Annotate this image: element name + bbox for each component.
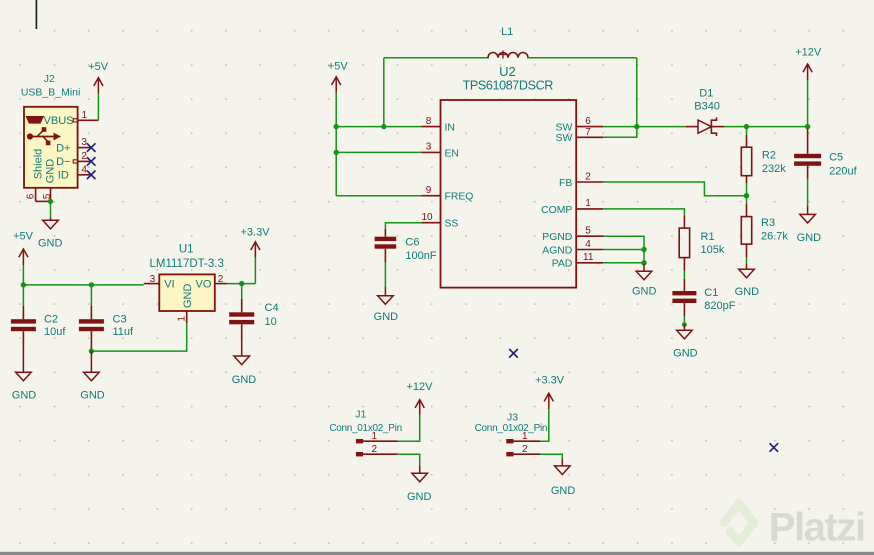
svg-text:8: 8 bbox=[426, 116, 432, 127]
svg-text:11uf: 11uf bbox=[113, 326, 135, 338]
svg-text:SW: SW bbox=[556, 133, 573, 144]
svg-text:6: 6 bbox=[26, 193, 37, 199]
svg-text:1: 1 bbox=[522, 431, 528, 442]
wire SS to C6 bbox=[385, 223, 421, 229]
svg-text:4: 4 bbox=[585, 239, 591, 250]
svg-text:B340: B340 bbox=[694, 101, 720, 113]
J2 pin 4 ID bbox=[58, 164, 91, 181]
J2 pin 5 GND bbox=[42, 188, 53, 202]
svg-text:AGND: AGND bbox=[542, 245, 572, 256]
svg-text:TPS61087DSCR: TPS61087DSCR bbox=[463, 79, 554, 93]
connector J1 Conn_01x02_Pin bbox=[329, 409, 402, 434]
svg-text:1: 1 bbox=[372, 431, 378, 442]
svg-text:GND: GND bbox=[551, 485, 576, 497]
capacitor C3 bbox=[79, 285, 134, 351]
resistor R3 26.7k bbox=[741, 204, 788, 257]
svg-text:2: 2 bbox=[81, 151, 87, 162]
svg-text:Conn_01x02_Pin: Conn_01x02_Pin bbox=[475, 423, 548, 434]
svg-text:11: 11 bbox=[583, 252, 594, 263]
svg-text:820pF: 820pF bbox=[704, 300, 735, 312]
svg-text:7: 7 bbox=[585, 127, 591, 138]
capacitor C2 bbox=[11, 285, 66, 346]
svg-text:C5: C5 bbox=[829, 151, 843, 163]
svg-text:PGND: PGND bbox=[542, 232, 572, 243]
wire C5 to gnd bbox=[807, 179, 809, 206]
svg-text:5: 5 bbox=[585, 226, 591, 237]
U2 pin 4 AGND bbox=[542, 239, 603, 257]
wire C1 to gnd bbox=[683, 316, 685, 325]
U2 pin 9 FREQ bbox=[422, 185, 474, 203]
svg-text:J1: J1 bbox=[355, 409, 366, 421]
wire EN bbox=[336, 151, 421, 153]
wire +3.3V down bbox=[254, 258, 256, 284]
svg-text:+5V: +5V bbox=[328, 61, 349, 73]
svg-text:232k: 232k bbox=[762, 163, 786, 175]
svg-text:GND: GND bbox=[735, 286, 760, 298]
IC U2 TPS61087DSCR bbox=[441, 64, 577, 288]
U1 pin 3 bbox=[144, 274, 160, 285]
svg-text:1: 1 bbox=[177, 316, 188, 322]
no-connect pin 4 bbox=[87, 171, 96, 180]
svg-text:Conn_01x02_Pin: Conn_01x02_Pin bbox=[329, 423, 402, 434]
J2 pin 3 D+ bbox=[56, 137, 91, 154]
U2 pin 2 FB bbox=[559, 171, 603, 189]
svg-text:+12V: +12V bbox=[795, 47, 822, 59]
junction rail/C3 bbox=[89, 282, 94, 287]
regulator U1 LM1117DT-3.3 bbox=[150, 243, 224, 311]
wire L1 left leg bbox=[383, 58, 385, 127]
wire SW6 to diode bbox=[603, 126, 685, 128]
J2 pin 1 VBUS bbox=[44, 110, 99, 127]
junction PAD bbox=[641, 260, 646, 265]
wire U1 VO to +3.3V bbox=[227, 283, 255, 285]
svg-text:D−: D− bbox=[56, 156, 70, 168]
J3 pin 1 bbox=[506, 431, 540, 443]
svg-text:L1: L1 bbox=[501, 26, 513, 38]
svg-text:VBUS: VBUS bbox=[44, 115, 74, 127]
svg-text:J3: J3 bbox=[507, 411, 518, 423]
svg-text:D+: D+ bbox=[56, 142, 70, 154]
svg-text:GND: GND bbox=[45, 159, 57, 184]
svg-text:C4: C4 bbox=[265, 302, 279, 314]
wire SW7 up bbox=[603, 127, 637, 138]
svg-text:PAD: PAD bbox=[552, 259, 573, 270]
svg-text:+3.3V: +3.3V bbox=[240, 227, 270, 239]
power +12V at J1 bbox=[407, 381, 434, 416]
junction L1/IN bbox=[381, 124, 386, 129]
no-connect pin 3 bbox=[87, 143, 96, 152]
resistor R1 105k bbox=[679, 216, 725, 271]
svg-text:1: 1 bbox=[585, 198, 591, 209]
svg-text:LM1117DT-3.3: LM1117DT-3.3 bbox=[150, 258, 224, 270]
capacitor C5 bbox=[794, 127, 857, 179]
connector J3 Conn_01x02_Pin bbox=[475, 411, 548, 434]
svg-text:1: 1 bbox=[82, 110, 88, 121]
svg-text:+12V: +12V bbox=[407, 381, 434, 393]
svg-text:R1: R1 bbox=[701, 231, 715, 243]
J1 pin 2 bbox=[356, 444, 397, 456]
power +5V left rail bbox=[13, 231, 34, 265]
wire C6 to gnd bbox=[384, 262, 386, 287]
junction C1 gnd bbox=[682, 322, 687, 327]
svg-text:5: 5 bbox=[42, 193, 53, 199]
svg-text:+3.3V: +3.3V bbox=[535, 374, 565, 386]
wire 5V rail to U1 VI bbox=[23, 284, 143, 286]
svg-text:U2: U2 bbox=[499, 64, 516, 79]
svg-text:GND: GND bbox=[374, 311, 399, 323]
svg-text:Platzi: Platzi bbox=[769, 506, 865, 550]
U2 pin 3 EN bbox=[422, 142, 459, 160]
svg-text:J2: J2 bbox=[44, 73, 55, 85]
J1 pin 1 bbox=[356, 431, 397, 443]
junction AGND bbox=[641, 247, 646, 252]
wire J3 pin2 to gnd bbox=[540, 454, 562, 459]
svg-text:C3: C3 bbox=[113, 314, 127, 326]
U2 pin 6 SW bbox=[556, 116, 604, 134]
wire diode to +12V node bbox=[724, 126, 808, 128]
svg-text:GND: GND bbox=[12, 389, 37, 401]
svg-text:100nF: 100nF bbox=[405, 250, 436, 262]
svg-text:U1: U1 bbox=[179, 243, 194, 255]
svg-text:GND: GND bbox=[797, 232, 822, 244]
wire +5V vertical feed bbox=[335, 93, 337, 196]
svg-text:R3: R3 bbox=[761, 217, 775, 229]
capacitor C6 bbox=[375, 229, 437, 262]
svg-text:SW: SW bbox=[556, 123, 573, 134]
svg-text:GND: GND bbox=[632, 286, 657, 298]
ground J2 bbox=[38, 218, 63, 250]
wire R3 to gnd bbox=[746, 257, 748, 264]
wire IN bbox=[336, 126, 421, 128]
ground R3 bbox=[735, 264, 760, 298]
U2 pin 1 COMP bbox=[541, 198, 603, 216]
junction C5 top bbox=[805, 124, 810, 129]
U2 pin 10 SS bbox=[421, 212, 458, 230]
bottom border bar bbox=[0, 552, 874, 555]
svg-text:2: 2 bbox=[522, 444, 528, 455]
svg-text:Shield: Shield bbox=[33, 149, 45, 180]
svg-text:GND: GND bbox=[80, 389, 105, 401]
ground C3 bbox=[80, 351, 105, 401]
svg-text:2: 2 bbox=[372, 444, 378, 455]
svg-text:SS: SS bbox=[445, 219, 459, 230]
svg-text:GND: GND bbox=[38, 238, 63, 250]
svg-text:ID: ID bbox=[58, 169, 69, 181]
wire PGND bbox=[603, 236, 644, 264]
svg-text:220uf: 220uf bbox=[829, 165, 857, 177]
inductor L1 bbox=[488, 26, 528, 58]
resistor R2 232k bbox=[741, 127, 786, 183]
svg-text:+5V: +5V bbox=[13, 231, 34, 243]
svg-text:GND: GND bbox=[407, 491, 432, 503]
power +3.3V at J3 bbox=[535, 374, 565, 409]
wire L1 to right leg bbox=[527, 57, 637, 59]
ground C6 bbox=[374, 287, 399, 323]
wire AGND bbox=[603, 249, 644, 251]
svg-text:10: 10 bbox=[265, 316, 277, 328]
U1 pin 2 bbox=[215, 274, 227, 285]
wire J3 pin1 to +3.3V bbox=[540, 409, 549, 441]
junction FB/R2/R3 bbox=[744, 193, 749, 198]
diode D1 B340 bbox=[686, 88, 724, 137]
junction J2 gnd bbox=[48, 199, 53, 204]
no-connect pin 2 bbox=[87, 157, 96, 166]
power +3.3V bbox=[240, 227, 270, 258]
svg-text:C6: C6 bbox=[405, 236, 419, 248]
junction +5V/EN bbox=[334, 150, 339, 155]
svg-text:C1: C1 bbox=[704, 287, 718, 299]
svg-text:C2: C2 bbox=[44, 314, 58, 326]
junction C3/U1 return bbox=[89, 348, 94, 353]
no-connect X mark center bbox=[509, 349, 518, 358]
svg-text:USB_B_Mini: USB_B_Mini bbox=[21, 86, 81, 98]
capacitor C1 820pF bbox=[672, 279, 735, 316]
svg-text:3: 3 bbox=[81, 137, 87, 148]
J2 VBUS trapezoid icon bbox=[26, 116, 45, 124]
svg-text:3: 3 bbox=[150, 274, 156, 285]
ground C1 bbox=[673, 325, 698, 360]
wire L1 right leg down bbox=[636, 58, 638, 127]
svg-text:+5V: +5V bbox=[88, 61, 109, 73]
wire +12V down bbox=[807, 80, 809, 127]
wire J2 to GND bbox=[50, 201, 52, 218]
J2 pin 2 D- bbox=[56, 151, 91, 168]
Platzi watermark logo bbox=[724, 503, 865, 549]
svg-text:10uf: 10uf bbox=[44, 326, 66, 338]
svg-text:4: 4 bbox=[81, 164, 87, 175]
cursor line bbox=[35, 0, 37, 29]
svg-text:26.7k: 26.7k bbox=[761, 231, 788, 243]
J2 USB trident icon bbox=[27, 127, 61, 145]
U1 pin 1 bbox=[177, 311, 188, 323]
svg-text:EN: EN bbox=[445, 148, 459, 159]
wire COMP to R1 bbox=[603, 209, 684, 216]
svg-text:COMP: COMP bbox=[541, 205, 572, 216]
svg-text:105k: 105k bbox=[701, 244, 725, 256]
svg-text:GND: GND bbox=[673, 348, 698, 360]
junction R2 top bbox=[744, 124, 749, 129]
svg-text:D1: D1 bbox=[699, 88, 713, 100]
no-connect X mark right bbox=[770, 443, 779, 452]
ground J1 bbox=[407, 466, 432, 503]
power +12V right bbox=[795, 47, 822, 80]
U2 pin 5 PGND bbox=[542, 226, 603, 244]
wire U1 gnd return bbox=[91, 323, 186, 351]
junction +5V/IN bbox=[334, 124, 339, 129]
ground C2 bbox=[12, 346, 37, 401]
capacitor C4 bbox=[229, 284, 278, 341]
wire top to L1 bbox=[384, 57, 489, 59]
U2 pin 7 SW bbox=[556, 127, 604, 144]
svg-text:6: 6 bbox=[585, 116, 591, 127]
connector J2 USB_B_Mini bbox=[21, 73, 81, 188]
svg-text:3: 3 bbox=[426, 142, 432, 153]
power +5V at J2 bbox=[88, 61, 109, 94]
wire R1 to C1 bbox=[683, 271, 685, 279]
wire J1 pin2 to gnd bbox=[397, 454, 420, 466]
wire R2 bottom bbox=[746, 183, 748, 204]
svg-text:VO: VO bbox=[196, 278, 212, 290]
junction rail/C2 bbox=[21, 282, 26, 287]
wire +5V down bbox=[22, 265, 24, 285]
J3 pin 2 bbox=[506, 444, 540, 456]
svg-text:2: 2 bbox=[218, 274, 224, 285]
svg-text:R2: R2 bbox=[762, 149, 776, 161]
svg-text:IN: IN bbox=[445, 123, 455, 134]
ground PGND/AGND/PAD bbox=[632, 264, 657, 298]
svg-text:10: 10 bbox=[421, 212, 433, 223]
wire FB bbox=[603, 182, 746, 196]
U2 pin 11 PAD bbox=[552, 252, 604, 270]
svg-text:VI: VI bbox=[164, 278, 174, 290]
svg-text:GND: GND bbox=[182, 284, 194, 309]
wire PAD bbox=[603, 262, 644, 264]
svg-text:2: 2 bbox=[585, 171, 591, 182]
wire +5V to J2 pin1 bbox=[97, 94, 99, 121]
ground J3 bbox=[551, 459, 576, 497]
power +5V at U2 bbox=[328, 61, 349, 93]
junction SW node bbox=[634, 124, 639, 129]
junction VO/C4 bbox=[239, 281, 244, 286]
J2 pin 6 Shield bbox=[26, 188, 51, 202]
U2 pin 8 IN bbox=[422, 116, 455, 134]
wire J1 pin1 to +12V bbox=[397, 416, 420, 442]
svg-text:FREQ: FREQ bbox=[445, 192, 474, 203]
svg-text:9: 9 bbox=[426, 185, 432, 196]
ground C4 bbox=[232, 341, 257, 386]
ground C5 bbox=[797, 206, 822, 244]
svg-text:GND: GND bbox=[232, 374, 257, 386]
svg-text:FB: FB bbox=[559, 178, 572, 189]
wire FREQ bbox=[336, 195, 421, 197]
